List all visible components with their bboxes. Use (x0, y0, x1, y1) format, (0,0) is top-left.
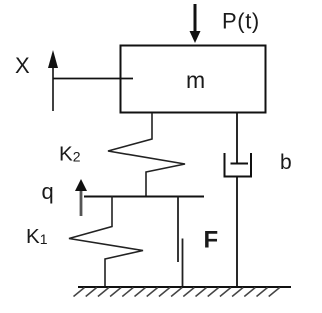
svg-text:X: X (15, 53, 30, 78)
spring K1 (69, 196, 143, 287)
damper rod lower (236, 177, 238, 288)
displacement arrow X (48, 50, 58, 111)
mass m (121, 46, 266, 113)
damper rod upper (236, 113, 238, 163)
ground hatching (74, 288, 280, 297)
svg-text:b: b (280, 151, 292, 174)
svg-text:q: q (42, 179, 54, 204)
svg-text:P(t): P(t) (222, 9, 260, 34)
svg-text:m: m (186, 67, 205, 93)
platform wire (84, 196, 204, 198)
spring K2 (108, 113, 185, 196)
damper cylinder b (225, 153, 252, 177)
displacement arrow q (75, 179, 87, 216)
ground line (78, 286, 291, 288)
svg-text:F: F (204, 227, 219, 254)
friction element upper rod (177, 197, 179, 263)
damper piston (231, 163, 249, 165)
friction element lower rod (182, 239, 184, 288)
wire from X arrow to mass (53, 78, 133, 80)
svg-text:K1: K1 (26, 225, 48, 248)
force arrow P(t) (190, 4, 201, 43)
svg-text:K2: K2 (59, 143, 81, 166)
